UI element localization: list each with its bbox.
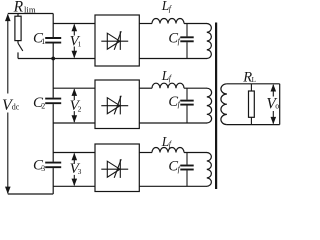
resistor Rlim [15,14,21,44]
voltage source annotation Vdc arrow [5,14,11,194]
svg-text:R: R [13,0,24,16]
svg-text:lim: lim [24,4,36,14]
label Lf1 [161,0,173,13]
transformer secondary winding [221,84,227,125]
capacitor Cf2 [180,88,193,123]
transformer core [215,23,217,190]
wire: Lf3 to transformer primary [184,152,207,154]
label Vdc [2,97,20,114]
converter bridge U3 box [95,144,139,192]
label C1 [33,30,45,46]
svg-text:1: 1 [78,40,82,49]
wire: Lf2 to transformer primary [184,87,207,89]
wire: secondary top [227,83,280,85]
wire: U1 output to Lf1 [139,23,152,25]
inductor Lf2 [152,83,184,88]
label Lf3 [161,134,173,149]
converter bridge U1 box [95,15,139,66]
load resistor RL [249,84,255,125]
converter bridge U2 box [95,80,139,129]
wire: U3 output to Lf3 [139,152,152,154]
svg-text:2: 2 [41,101,45,110]
wire: U2 return to transformer primary [139,122,207,124]
voltage annotation V1 arrow [72,24,78,58]
svg-text:3: 3 [78,167,82,176]
capacitor C1 [45,38,61,43]
wire: cell1 bottom wire (bus to bridge) [53,58,95,60]
label RL [242,69,256,85]
label Vo [266,96,279,113]
wire: secondary bottom [227,124,280,126]
switch S (bypass, open) [18,43,23,58]
junction dot [51,57,55,61]
capacitor C3 [45,163,61,168]
capacitor C2 [45,99,61,104]
label C2 [33,95,45,111]
label V2 [70,98,82,114]
wire: Lf1 to transformer primary [184,23,207,25]
label C3 [33,158,45,174]
wire: switch branch to bus [18,58,53,60]
label Lf2 [161,68,173,83]
thyristor valve symbol in U2 [101,96,128,115]
transformer primary winding P3 [207,153,212,187]
wire: cell2 bottom wire (bus to bridge) [53,122,95,124]
svg-text:L: L [252,76,256,84]
label V3 [70,161,82,177]
voltage annotation V2 arrow [72,89,78,123]
thyristor valve symbol in U1 [101,31,128,50]
svg-text:dc: dc [12,102,20,111]
label Rlim [13,0,36,16]
wire: secondary right closing [279,84,281,125]
voltage annotation V3 arrow [72,153,78,186]
wire: U2 output to Lf2 [139,87,152,89]
label Cf1 [168,31,181,47]
wire: top DC rail [8,13,53,15]
svg-text:2: 2 [78,104,82,113]
wire: DC bus (series capacitor string) [52,14,54,195]
inductor Lf1 [152,19,184,24]
transformer primary winding P2 [207,88,212,123]
wire: U3 return to transformer primary [139,185,207,187]
wire: cell1 top wire (bus to bridge) [53,23,95,25]
wire: cell2 top wire (bus to bridge) [53,87,95,89]
voltage annotation Vo arrow [271,84,277,124]
label Cf3 [168,159,181,175]
capacitor Cf3 [180,153,193,187]
wire: cell3 top wire (bus to bridge) [53,152,95,154]
wire: cell3 bottom wire (bus to bridge) [53,185,95,187]
label Cf2 [168,94,181,110]
thyristor valve symbol in U3 [101,159,128,178]
inductor Lf3 [152,148,184,153]
capacitor Cf1 [180,24,193,59]
wire: bottom DC rail [8,193,53,195]
svg-text:1: 1 [41,37,45,46]
transformer primary winding P1 [207,24,212,59]
label V1 [70,33,82,49]
wire: U1 return to transformer primary [139,58,207,60]
svg-text:3: 3 [41,164,45,173]
svg-text:o: o [275,102,279,111]
